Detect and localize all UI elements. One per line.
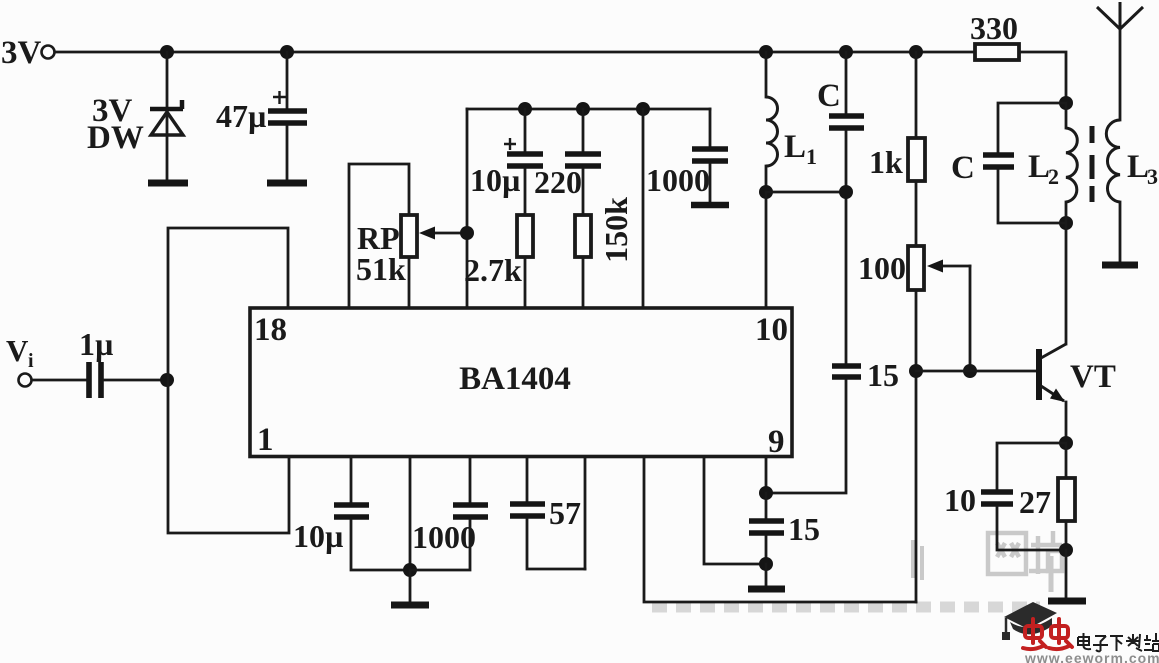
- capacitor 10u bottom pin2: [334, 457, 410, 570]
- terminal 3V input: [42, 46, 55, 59]
- svg-text:100: 100: [858, 250, 906, 286]
- wire L1 to C: [766, 191, 846, 194]
- wire collector vertical: [1065, 223, 1068, 344]
- wire zener lead: [166, 52, 169, 180]
- svg-text:15: 15: [867, 357, 899, 393]
- ground below 27: [1048, 598, 1086, 605]
- wire pin9: [765, 457, 768, 493]
- IC BA1404: [250, 308, 792, 457]
- capacitor 220: [565, 109, 601, 215]
- transformer core dashes: [1090, 126, 1095, 202]
- svg-text:i: i: [28, 350, 34, 372]
- node rail-47u: [280, 45, 294, 59]
- svg-text:VT: VT: [1070, 359, 1116, 395]
- svg-text:L: L: [1127, 149, 1149, 185]
- node base row wiper: [963, 364, 977, 378]
- wire 100 wiper arrow: [927, 260, 970, 372]
- watermark ghost blurred text row: [652, 602, 1040, 613]
- antenna: [1097, 2, 1143, 29]
- wire input loop to pins 18 and 1: [168, 228, 289, 533]
- svg-text:L: L: [1028, 149, 1050, 185]
- diode DW zener: [150, 100, 183, 135]
- wire +3V rail: [55, 51, 975, 54]
- terminal Vi: [19, 374, 32, 387]
- svg-text:3V: 3V: [1, 35, 42, 71]
- ground below pin3: [391, 602, 429, 609]
- node rail-10u: [518, 102, 532, 116]
- svg-text:2: 2: [1048, 164, 1059, 189]
- svg-text:V: V: [6, 333, 29, 368]
- svg-text:15: 15: [788, 511, 820, 547]
- watermark ghost char "网": [988, 533, 1026, 574]
- wire pin7 long: [644, 457, 916, 602]
- potentiometer 100 body: [908, 246, 924, 290]
- svg-text:9: 9: [768, 424, 785, 460]
- wire pin3 to ground: [409, 457, 412, 570]
- wire base: [916, 370, 1036, 373]
- ground below zener: [148, 180, 188, 187]
- capacitor 1u: [32, 362, 166, 398]
- wire 150k to IC: [582, 257, 585, 307]
- node Vi junction: [160, 373, 174, 387]
- node pin9 ground junction: [759, 557, 773, 571]
- wire to ground VT: [1065, 550, 1068, 598]
- svg-text:18: 18: [254, 312, 287, 348]
- logo char chong 1 red: [1023, 619, 1046, 649]
- node rail-1k: [909, 45, 923, 59]
- wire pin3 ground stem: [409, 570, 412, 602]
- logo char chong 2 red: [1049, 619, 1072, 649]
- logo text dianzi xiazaizhan: [1078, 633, 1159, 651]
- svg-text:27: 27: [1019, 484, 1051, 520]
- wire 100 bottom to pin7 row: [915, 290, 918, 602]
- node rail-pin12: [636, 102, 650, 116]
- node pin9 junction: [759, 486, 773, 500]
- capacitor 47u: [268, 52, 307, 179]
- wire pin6: [584, 457, 587, 569]
- inductor L3: [1106, 29, 1120, 262]
- ground below L3: [1102, 262, 1138, 269]
- potentiometer RP body: [401, 215, 417, 257]
- node C-L1 junction: [839, 185, 853, 199]
- node L2 bottom: [1059, 216, 1073, 230]
- svg-text:47µ: 47µ: [216, 98, 266, 134]
- capacitor 1000 bottom pin4: [410, 457, 488, 570]
- svg-text:L: L: [784, 129, 806, 165]
- capacitor 57 pin5: [510, 457, 585, 569]
- resistor 150k: [575, 215, 591, 257]
- svg-text:150k: 150k: [598, 197, 634, 263]
- logo graduation cap: [1002, 602, 1057, 640]
- resistor 330: [975, 44, 1019, 60]
- inductor L1: [766, 52, 778, 192]
- svg-text:DW: DW: [87, 120, 144, 156]
- svg-text:3: 3: [1147, 164, 1158, 189]
- svg-text:1k: 1k: [869, 144, 903, 180]
- svg-text:2.7k: 2.7k: [464, 252, 522, 288]
- wire pin10 vertical: [765, 192, 768, 307]
- svg-text:C: C: [951, 150, 975, 186]
- capacitor 10 by VT: [981, 443, 1066, 550]
- node rail-220: [576, 102, 590, 116]
- capacitor 10u top: [504, 109, 543, 215]
- svg-text:C: C: [817, 78, 841, 114]
- node L1 bottom: [759, 185, 773, 199]
- svg-text:220: 220: [534, 164, 582, 200]
- svg-text:10µ: 10µ: [293, 518, 343, 554]
- node pin3 ground junction: [403, 563, 417, 577]
- watermark ghost char "站": [1029, 531, 1062, 574]
- wire rail right of 330: [1019, 52, 1066, 103]
- svg-text:51k: 51k: [356, 251, 406, 287]
- svg-text:10µ: 10µ: [470, 162, 520, 198]
- wire RP loop: [349, 164, 409, 307]
- svg-text:1µ: 1µ: [79, 326, 113, 362]
- capacitor 15 right chain: [768, 366, 861, 493]
- svg-text:1: 1: [806, 144, 817, 169]
- watermark ghost stroke below 站: [1049, 556, 1054, 592]
- watermark ghost strokes left: [913, 540, 922, 580]
- svg-text:1: 1: [257, 422, 274, 458]
- wire RP bottom lead: [408, 257, 411, 307]
- svg-text:330: 330: [970, 10, 1018, 46]
- svg-text:1000: 1000: [412, 519, 476, 555]
- svg-text:1000: 1000: [646, 162, 710, 198]
- node rail-C: [839, 45, 853, 59]
- wire pin8: [704, 457, 766, 564]
- node 27 bottom: [1059, 543, 1073, 557]
- resistor 1k: [908, 52, 925, 246]
- resistor 27: [1058, 443, 1075, 550]
- node emitter junction: [1059, 436, 1073, 450]
- wire 2.7k to IC: [524, 257, 527, 307]
- inductor L2: [1066, 103, 1077, 223]
- svg-text:57: 57: [549, 495, 581, 531]
- node base row left: [909, 364, 923, 378]
- wire upper rail: [467, 108, 710, 111]
- node L2 top: [1059, 96, 1073, 110]
- transistor VT: [1039, 344, 1066, 443]
- ground below 1000 top: [691, 202, 729, 209]
- svg-text:10: 10: [755, 312, 788, 348]
- svg-text:BA1404: BA1404: [459, 361, 571, 397]
- resistor 2.7k: [517, 215, 533, 257]
- capacitor 15 pin9: [749, 493, 784, 564]
- node rail-L1: [759, 45, 773, 59]
- node rail-zener: [160, 45, 174, 59]
- svg-text:10: 10: [944, 482, 976, 518]
- wire pin9 ground stem: [765, 564, 768, 585]
- ground below pin9: [748, 586, 785, 593]
- wire RP wiper arrow: [419, 227, 467, 240]
- ground below 47u: [267, 180, 307, 187]
- wire pin12 vertical: [642, 109, 645, 307]
- wire pin15 vertical: [466, 109, 469, 307]
- node wiper junction: [460, 226, 474, 240]
- capacitor C near L2: [983, 103, 1066, 223]
- svg-text:www.eeworm.com: www.eeworm.com: [1024, 650, 1159, 663]
- capacitor 1000 top: [692, 109, 728, 202]
- capacitor C near L1: [829, 52, 864, 364]
